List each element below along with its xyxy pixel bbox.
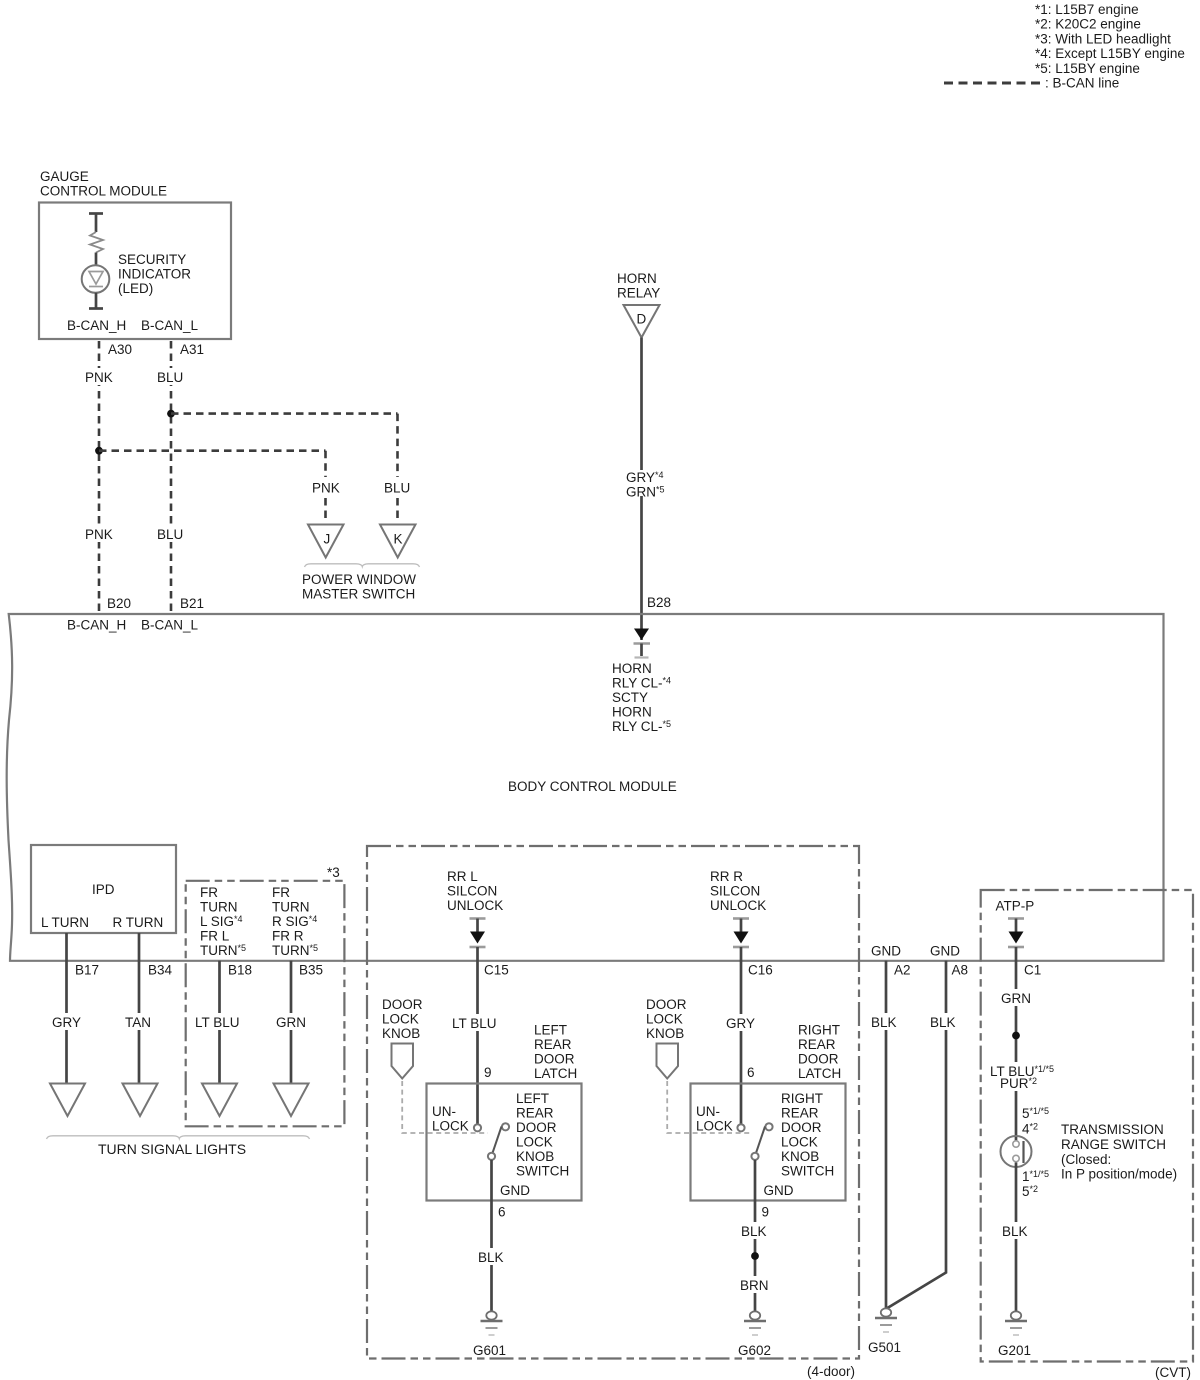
svg-text:6: 6 [498,1205,506,1220]
wire below LED [95,293,98,309]
wire dashed PNK branch vertical to J [324,451,327,477]
svg-text:KNOB: KNOB [646,1026,684,1041]
svg-text:LATCH: LATCH [798,1066,841,1081]
svg-text:6: 6 [747,1065,755,1080]
left knob switch arm [493,1127,502,1154]
svg-text:BLK: BLK [930,1015,956,1030]
svg-text:RLY CL-*5: RLY CL-*5 [612,719,671,734]
PNK label lower [82,525,115,542]
svg-text:DOOR: DOOR [382,997,423,1012]
horn relay connector D triangle [624,305,660,338]
svg-text:LOCK: LOCK [646,1012,683,1027]
svg-text:RIGHT: RIGHT [798,1023,840,1038]
BLK wire label right [738,1222,772,1239]
wire L TURN GRY [65,933,68,1083]
svg-text:*4: Except L15BY engine: *4: Except L15BY engine [1035,46,1185,61]
svg-text:PNK: PNK [85,370,113,385]
svg-text:G501: G501 [868,1340,901,1355]
svg-text:REAR: REAR [534,1037,572,1052]
svg-text:BLU: BLU [384,481,410,496]
LED diode triangle [89,272,103,285]
resistor (security indicator) [90,232,103,253]
wire dashed PNK branch horizontal [99,449,326,452]
svg-text:B35: B35 [299,963,323,978]
BLU label upper [154,368,186,385]
svg-text:UNLOCK: UNLOCK [710,898,766,913]
junction PNK node [95,447,103,455]
svg-text:*5: L15BY engine: *5: L15BY engine [1035,61,1140,76]
svg-text:LATCH: LATCH [534,1066,577,1081]
svg-text:GND: GND [871,944,901,959]
left door lock knob symbol [392,1044,414,1079]
svg-text:: B-CAN line: : B-CAN line [1045,76,1119,91]
svg-text:GRY: GRY [52,1015,81,1030]
connector arrow C1 [1008,917,1024,920]
GRY wire label right [722,1014,761,1031]
svg-text:SWITCH: SWITCH [781,1164,834,1179]
left knob switch contact C [488,1153,495,1160]
svg-text:LOCK: LOCK [696,1119,733,1134]
svg-text:FR: FR [272,885,290,900]
svg-text:GRN: GRN [276,1015,306,1030]
wire stub above resistor [89,212,103,215]
right door lock knob symbol [657,1044,679,1079]
connector J triangle [308,525,344,558]
svg-text:BLK: BLK [1002,1224,1028,1239]
wire A2 BLK to G501 [885,961,888,1309]
svg-text:BLU: BLU [157,527,183,542]
FR R turn arrow [274,1084,309,1117]
svg-text:BRN: BRN [740,1278,769,1293]
svg-text:POWER WINDOW: POWER WINDOW [302,572,416,587]
svg-text:B-CAN_L: B-CAN_L [141,618,199,633]
svg-text:TURN: TURN [272,900,310,915]
svg-text:MASTER SWITCH: MASTER SWITCH [302,587,415,602]
connector arrow C15 [470,917,486,920]
svg-text:UN-: UN- [432,1104,456,1119]
left knob mechanical link dashed [402,1081,488,1133]
svg-text:DOOR: DOOR [646,997,687,1012]
svg-text:B-CAN_H: B-CAN_H [67,318,126,333]
gauge control module box [39,203,231,340]
GRN wire label [998,989,1037,1006]
svg-text:KNOB: KNOB [516,1149,554,1164]
PNK label upper [82,368,115,385]
svg-text:G602: G602 [738,1343,771,1358]
svg-text:A8: A8 [952,963,969,978]
wire B18 LT BLU [218,961,221,1083]
svg-text:FR R: FR R [272,929,304,944]
svg-text:PNK: PNK [312,481,340,496]
svg-text:LT BLU: LT BLU [195,1015,240,1030]
svg-text:RANGE SWITCH: RANGE SWITCH [1061,1137,1166,1152]
connector K triangle [380,525,416,558]
GRY wire label [48,1013,86,1030]
splice junction node [751,1252,759,1260]
BLK wire label CVT [999,1222,1033,1239]
svg-text:BLU: BLU [157,370,183,385]
wire dashed BLU branch horizontal [171,412,398,415]
svg-text:LOCK: LOCK [516,1135,553,1150]
brace under J K [305,564,420,567]
svg-text:B20: B20 [107,596,131,611]
svg-text:KNOB: KNOB [781,1149,819,1164]
svg-text:REAR: REAR [516,1106,554,1121]
svg-text:BLK: BLK [741,1224,767,1239]
BRN wire label [737,1276,773,1293]
TAN wire label [121,1013,158,1030]
svg-text:B28: B28 [647,595,671,610]
svg-text:UN-: UN- [696,1104,720,1119]
svg-text:*2: K20C2 engine: *2: K20C2 engine [1035,17,1141,32]
svg-text:SILCON: SILCON [447,884,497,899]
svg-text:9: 9 [762,1205,770,1220]
brace under turn signal lights [47,1136,310,1139]
svg-text:LOCK: LOCK [432,1119,469,1134]
BLK wire label left [475,1248,509,1265]
connector arrow C16 [733,917,749,920]
LED cathode bar [89,286,103,288]
svg-text:*1: L15B7 engine: *1: L15B7 engine [1035,2,1139,17]
svg-text:L TURN: L TURN [41,915,89,930]
wire dashed BLU branch vertical to K [396,414,399,477]
svg-text:B18: B18 [228,963,252,978]
svg-text:G201: G201 [998,1343,1031,1358]
svg-text:D: D [637,312,647,327]
wire C16 GRY to latch [740,947,743,1124]
TRS closed arm [1022,1141,1024,1163]
left knob switch contact A [474,1124,481,1131]
svg-text:B17: B17 [75,963,99,978]
svg-text:SECURITY: SECURITY [118,252,186,267]
svg-text:RELAY: RELAY [617,286,660,301]
ground G601 [486,1311,496,1319]
svg-text:LEFT: LEFT [534,1023,567,1038]
LT BLU wire label [449,1014,505,1031]
svg-text:TRANSMISSION: TRANSMISSION [1061,1122,1164,1137]
svg-text:SCTY: SCTY [612,690,648,705]
svg-text:A30: A30 [108,342,132,357]
svg-text:B-CAN_H: B-CAN_H [67,618,126,633]
svg-text:B-CAN_L: B-CAN_L [141,318,199,333]
svg-text:HORN: HORN [612,705,652,720]
svg-text:C1: C1 [1024,963,1041,978]
wire B35 GRN [290,961,293,1083]
svg-text:DOOR: DOOR [516,1120,557,1135]
GRN wire label [272,1013,311,1030]
pin 5/4 labels [1019,1105,1055,1137]
svg-text:GND: GND [500,1183,530,1198]
wire A8 BLK to G501 [888,961,947,1308]
svg-text:SWITCH: SWITCH [516,1164,569,1179]
svg-text:BLK: BLK [871,1015,897,1030]
ground G602 [750,1311,760,1319]
dash-dot box *3 (LED headlight turn signals) [186,881,345,1127]
wire resistor to LED [95,253,98,267]
svg-text:GRN: GRN [1001,991,1031,1006]
body control module box [7,614,1164,961]
svg-text:KNOB: KNOB [382,1026,420,1041]
TRS bottom contact [1013,1155,1019,1161]
BLK label A8 [927,1013,961,1030]
svg-text:TURN SIGNAL LIGHTS: TURN SIGNAL LIGHTS [98,1141,246,1157]
svg-text:LT BLU: LT BLU [452,1016,497,1031]
svg-text:9: 9 [484,1065,492,1080]
svg-text:J: J [324,532,331,547]
right knob switch contact C [751,1153,758,1160]
svg-text:BODY CONTROL MODULE: BODY CONTROL MODULE [508,779,677,794]
svg-text:TURN: TURN [200,900,238,915]
svg-text:A31: A31 [180,342,204,357]
svg-text:(Closed:: (Closed: [1061,1152,1111,1167]
svg-text:DOOR: DOOR [798,1052,839,1067]
svg-text:R TURN: R TURN [113,915,164,930]
TRS top contact [1013,1141,1019,1147]
svg-text:DOOR: DOOR [781,1120,822,1135]
right rear door latch box [691,1084,846,1201]
ground G501 [881,1308,891,1316]
svg-text:RR R: RR R [710,869,743,884]
svg-text:INDICATOR: INDICATOR [118,267,191,282]
BLU label lower [154,525,186,542]
left rear door latch box [427,1084,582,1201]
svg-text:GAUGE: GAUGE [40,169,89,184]
svg-text:IPD: IPD [92,882,115,897]
LED security indicator circle [82,265,110,293]
BLK label A2 [868,1013,902,1030]
right knob switch contact A [737,1124,744,1131]
svg-text:GRY: GRY [726,1016,755,1031]
svg-text:DOOR: DOOR [534,1052,575,1067]
svg-text:FR L: FR L [200,929,230,944]
svg-text:FR: FR [200,885,218,900]
wire C15 LT BLU to latch [476,947,479,1124]
svg-text:GND: GND [764,1183,794,1198]
svg-text:CONTROL MODULE: CONTROL MODULE [40,184,167,199]
svg-text:(4-door): (4-door) [807,1364,855,1379]
wire C1 GRN to switch [1015,947,1018,1141]
ground G201 [1011,1311,1021,1319]
transmission range switch circle [1001,1136,1032,1167]
L turn signal light arrow [50,1084,85,1117]
wire horn relay to B28 [640,338,643,471]
svg-text:GND: GND [930,944,960,959]
svg-text:RR L: RR L [447,869,478,884]
IPD box [31,845,176,933]
svg-text:In P position/mode): In P position/mode) [1061,1167,1177,1182]
legend B-CAN sample line [944,82,1041,85]
left knob switch contact B [502,1123,509,1130]
arrow into BCM at B28 [634,629,649,641]
svg-text:RLY CL-*4: RLY CL-*4 [612,676,671,691]
svg-text:LEFT: LEFT [516,1091,549,1106]
wire from contact C to ground G601 [490,1160,493,1312]
right knob switch contact B [765,1123,772,1130]
svg-text:TAN: TAN [125,1015,151,1030]
R turn signal light arrow [123,1084,158,1117]
wire TRS to G201 BLK [1015,1163,1018,1312]
svg-text:ATP-P: ATP-P [996,899,1035,914]
svg-text:SILCON: SILCON [710,884,760,899]
wire B-CAN_H PNK dashed (A30 to B20) [98,341,101,614]
LT BLU wire label [192,1013,247,1030]
svg-text:A2: A2 [894,963,911,978]
FR L turn arrow [202,1084,237,1117]
svg-text:B21: B21 [180,596,204,611]
svg-text:UNLOCK: UNLOCK [447,898,503,913]
svg-text:LOCK: LOCK [382,1012,419,1027]
svg-text:B34: B34 [148,963,173,978]
svg-text:C15: C15 [484,963,509,978]
dash-dot box (CVT) [981,890,1193,1362]
svg-text:(CVT): (CVT) [1155,1365,1191,1380]
wire B-CAN_L BLU dashed (A31 to B21) [170,341,173,614]
svg-text:C16: C16 [748,963,773,978]
dashed box (4-door) [367,846,859,1359]
junction BLU node [167,410,175,418]
svg-text:PNK: PNK [85,527,113,542]
svg-text:K: K [394,532,403,547]
wire R TURN TAN [138,933,141,1083]
svg-text:LOCK: LOCK [781,1135,818,1150]
svg-text:(LED): (LED) [118,281,153,296]
svg-text:BLK: BLK [478,1250,504,1265]
svg-text:REAR: REAR [798,1037,836,1052]
svg-text:RIGHT: RIGHT [781,1091,823,1106]
LT BLU PUR wire label [988,1062,1050,1091]
svg-text:HORN: HORN [617,271,657,286]
svg-text:*3: *3 [327,865,340,880]
svg-text:G601: G601 [473,1343,506,1358]
wire from right contact C to ground G602 [754,1160,757,1312]
svg-text:HORN: HORN [612,661,652,676]
svg-text:REAR: REAR [781,1106,819,1121]
junction node [1012,1032,1020,1040]
svg-text:*3: With LED headlight: *3: With LED headlight [1035,31,1171,46]
right knob switch arm [756,1127,765,1154]
right knob mechanical link dashed [667,1081,752,1133]
